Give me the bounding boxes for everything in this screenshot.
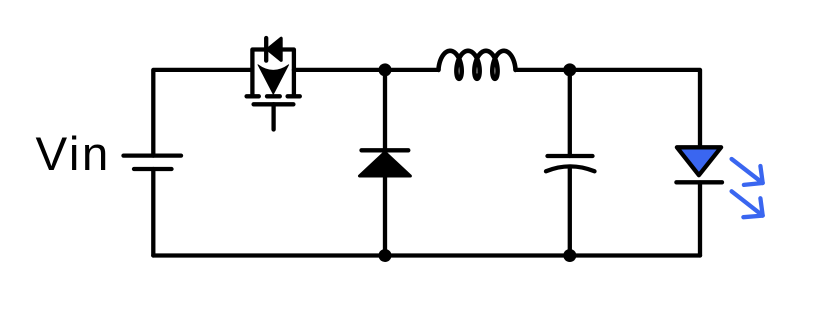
battery V1: short negative plate — [134, 167, 172, 171]
Q1 gate bar — [254, 102, 294, 106]
svg-text:Vin: Vin — [36, 128, 111, 181]
Q1 source/drain legs and top bar — [252, 50, 294, 97]
Q1 channel segment middle — [267, 94, 280, 98]
wire LED cathode to bottom rail — [698, 183, 702, 256]
Q1 channel segment right — [288, 94, 300, 98]
node D junction dot (capacitor branch on ground rail) — [563, 249, 576, 262]
battery V1 (Vin source): long positive plate — [124, 153, 182, 157]
transistor Q1 (MOSFET switch with body diode) — [247, 38, 300, 130]
LED D2 triangle (anode) — [677, 147, 721, 175]
Q1 gate lead — [271, 104, 275, 129]
LED light emission arrow 2 — [732, 191, 763, 217]
Q1 channel segment left — [247, 94, 259, 98]
diode D1 triangle — [360, 152, 411, 176]
node B junction dot (output node, top of capacitor branch) — [563, 63, 576, 76]
wire Vin+ to transistor source (left vertical + top-left rail) — [153, 70, 252, 156]
capacitor C1 top plate — [548, 154, 593, 158]
Q1 body diode triangle — [268, 38, 282, 60]
wire capacitor bottom plate to bottom rail — [568, 167, 572, 256]
wire transistor drain to node A — [294, 68, 439, 72]
node A junction dot (switch node, top of diode branch) — [379, 63, 392, 76]
wire bottom ground rail — [153, 253, 700, 257]
wire node B down to capacitor top plate — [568, 70, 572, 156]
capacitor C1 curved bottom plate — [546, 166, 595, 171]
wire node A down to diode cathode — [383, 70, 387, 150]
LED D2 cathode bar — [676, 180, 722, 184]
node C junction dot (diode branch on ground rail) — [379, 249, 392, 262]
diode D1 (freewheeling) cathode bar — [362, 148, 409, 152]
wire diode anode to bottom rail — [383, 176, 387, 256]
LED light emission arrow 1 — [732, 159, 763, 185]
Q1 body diode cathode bar — [264, 38, 268, 61]
wire inductor to node B, top-right corner, down to LED anode — [516, 70, 701, 147]
Q1 bulk arrow — [258, 65, 289, 95]
wire Vin- down to ground rail — [151, 169, 155, 256]
inductor L1 — [439, 51, 516, 79]
